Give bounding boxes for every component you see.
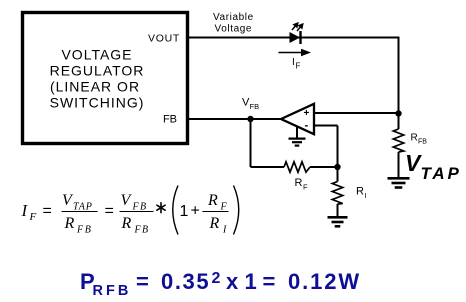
svg-text:x: x — [226, 269, 239, 294]
svg-text:=: = — [43, 203, 52, 220]
svg-text:VOLTAGE: VOLTAGE — [61, 47, 132, 63]
svg-text:R: R — [207, 192, 218, 209]
svg-text:RFB: RFB — [93, 283, 132, 299]
svg-text:0.35: 0.35 — [161, 269, 210, 294]
svg-text:F: F — [29, 211, 37, 223]
svg-text:Variable: Variable — [213, 12, 254, 23]
svg-text:I: I — [21, 201, 29, 220]
svg-text:I: I — [292, 57, 295, 68]
svg-text:0.12W: 0.12W — [288, 269, 361, 294]
svg-text:FB: FB — [132, 202, 148, 213]
svg-text:V: V — [121, 192, 133, 209]
svg-text:V: V — [405, 150, 422, 176]
svg-text:I: I — [365, 191, 367, 200]
svg-text:R: R — [295, 177, 303, 189]
svg-text:+: + — [304, 108, 310, 119]
svg-text:F: F — [220, 202, 228, 213]
svg-text:F: F — [303, 183, 308, 192]
svg-text:1: 1 — [245, 269, 257, 294]
svg-text:FB: FB — [418, 139, 427, 146]
svg-text:FB: FB — [134, 225, 150, 236]
svg-text:I: I — [222, 225, 227, 236]
svg-text:F: F — [296, 62, 301, 71]
svg-text:(LINEAR OR: (LINEAR OR — [50, 79, 140, 95]
svg-text:R: R — [121, 215, 132, 232]
svg-text:SWITCHING): SWITCHING) — [50, 95, 145, 111]
svg-text:VOUT: VOUT — [148, 33, 180, 45]
svg-text:2: 2 — [212, 270, 221, 287]
svg-text:R: R — [356, 186, 364, 198]
svg-text:-: - — [305, 120, 309, 132]
svg-text:TAP: TAP — [421, 164, 462, 183]
svg-text:R: R — [411, 133, 418, 144]
svg-text:R: R — [64, 215, 75, 232]
svg-text:R: R — [209, 215, 220, 232]
svg-text:+: + — [191, 203, 200, 220]
svg-text:=: = — [136, 269, 149, 294]
svg-text:FB: FB — [250, 102, 260, 111]
svg-text:Voltage: Voltage — [215, 24, 253, 35]
svg-text:REGULATOR: REGULATOR — [50, 63, 145, 79]
svg-text:=: = — [263, 269, 276, 294]
svg-text:=: = — [105, 203, 114, 220]
svg-text:FB: FB — [76, 225, 92, 236]
svg-text:TAP: TAP — [73, 202, 93, 213]
svg-text:FB: FB — [163, 114, 177, 126]
svg-text:1: 1 — [180, 203, 189, 220]
